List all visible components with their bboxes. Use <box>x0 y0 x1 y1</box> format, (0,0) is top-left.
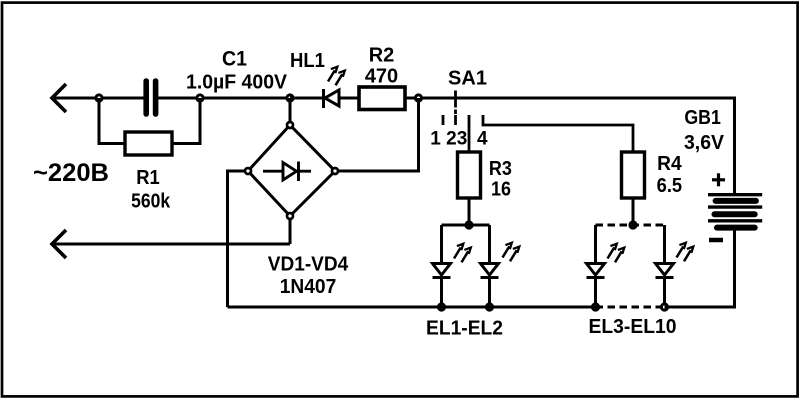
svg-text:GB1: GB1 <box>684 107 721 129</box>
node E (top of EL1-EL2 pair) <box>466 222 472 228</box>
wire: node C down to bridge top <box>289 98 292 122</box>
wire: bottom minus rail dashed segment <box>596 306 665 309</box>
svg-text:C1: C1 <box>222 48 247 71</box>
EL10 light arrows <box>677 243 694 261</box>
wire: bottom minus rail right segment up to battery <box>665 230 735 307</box>
svg-text:6.5: 6.5 <box>657 175 683 197</box>
resistor R4 <box>622 152 645 198</box>
wire: EL2 branch <box>488 225 491 264</box>
svg-text:1.0µF 400V: 1.0µF 400V <box>186 72 288 94</box>
bridge rectifier VD1-VD4 diamond <box>248 125 335 216</box>
svg-text:23: 23 <box>446 129 467 150</box>
AC input arrow (bottom) <box>52 230 66 258</box>
svg-text:VD1-VD4: VD1-VD4 <box>268 254 349 276</box>
svg-text:16: 16 <box>491 179 511 201</box>
wire: node D down to bridge right vertex <box>339 98 419 171</box>
HL1 light arrows <box>328 67 345 86</box>
resistor R2 <box>359 87 405 110</box>
AC input arrow (top) <box>52 84 66 112</box>
wire: node C to HL1 <box>290 97 322 100</box>
wire: EL3 branch <box>594 225 597 264</box>
wire: R2 to right corner, down to battery + <box>405 98 735 193</box>
wire: HL1 to R2 <box>339 97 359 100</box>
wire: bottom AC line <box>52 243 290 246</box>
svg-text:1N407: 1N407 <box>280 276 337 298</box>
svg-text:EL3-EL10: EL3-EL10 <box>589 316 677 338</box>
wire: bridge bottom to AC line <box>289 219 292 244</box>
node D (junction right of R2) <box>415 95 421 101</box>
SA1 contact 1 <box>442 115 445 125</box>
SA1 contact 4 and wire to R4 <box>483 115 633 152</box>
node H (top of EL3-EL10 pair) <box>630 222 636 228</box>
svg-text:470: 470 <box>365 66 398 88</box>
svg-text:R2: R2 <box>369 45 395 67</box>
resistor R3 <box>458 152 481 198</box>
wire: R1 left lead down from node A <box>99 98 125 144</box>
resistor R1 <box>125 132 172 155</box>
bridge right terminal <box>332 168 338 174</box>
EL1 light arrows <box>454 244 471 262</box>
svg-text:560k: 560k <box>131 191 171 213</box>
battery minus sign <box>709 238 723 243</box>
bridge top terminal <box>287 122 293 128</box>
wire: bridge left vertex to minus rail <box>228 171 246 307</box>
SA1 contact 2 <box>454 115 457 125</box>
LED HL1 <box>324 89 340 108</box>
svg-text:3,6V: 3,6V <box>684 132 725 154</box>
svg-text:R3: R3 <box>489 158 512 180</box>
node B (junction right of C1) <box>197 95 203 101</box>
node J (EL10 bottom) <box>661 304 667 310</box>
LED EL1 <box>433 264 451 308</box>
wire: R3 to EL1-EL2 top node <box>468 198 471 225</box>
wire: top AC line from arrow to C1 <box>52 97 144 100</box>
node G (EL2 bottom) <box>486 304 492 310</box>
bridge bottom terminal <box>287 213 293 219</box>
LED EL3 <box>587 264 605 308</box>
svg-text:EL1-EL2: EL1-EL2 <box>426 318 503 340</box>
LED EL2 <box>481 264 499 308</box>
node I (EL3 bottom) <box>592 304 598 310</box>
wire: R4 to EL3-EL10 top node <box>632 198 635 225</box>
wire: R1 right lead up to node B <box>172 98 200 144</box>
wire: EL1-EL2 top bar <box>442 224 490 227</box>
svg-text:4: 4 <box>477 129 488 150</box>
battery plus sign <box>712 173 725 186</box>
node A (junction left of C1) <box>96 95 102 101</box>
capacitor C1 <box>146 81 155 114</box>
EL3 light arrows <box>608 244 625 262</box>
svg-text:SA1: SA1 <box>448 68 487 90</box>
wire: C1 to node B <box>158 97 290 100</box>
bridge left terminal <box>245 168 251 174</box>
bridge inner diode <box>263 162 311 182</box>
svg-text:1: 1 <box>430 129 441 150</box>
wire: bottom minus rail left segment <box>228 306 596 309</box>
svg-text:~220В: ~220В <box>33 159 109 187</box>
svg-text:HL1: HL1 <box>290 50 325 72</box>
svg-text:R1: R1 <box>136 167 160 189</box>
node F (EL1 bottom) <box>438 304 444 310</box>
battery GB1 plates <box>708 195 762 228</box>
wire: EL1 branch <box>440 225 443 264</box>
LED EL10 <box>656 264 674 308</box>
switch SA1 wiper <box>454 91 457 115</box>
wire: EL10 branch <box>663 225 666 264</box>
EL2 light arrows <box>503 243 520 261</box>
SA1 contact 3 and wire to R3 <box>468 115 471 152</box>
wire: EL3-EL10 dashed top bar <box>596 224 665 227</box>
svg-text:R4: R4 <box>657 153 682 175</box>
node C (junction above bridge) <box>287 95 293 101</box>
